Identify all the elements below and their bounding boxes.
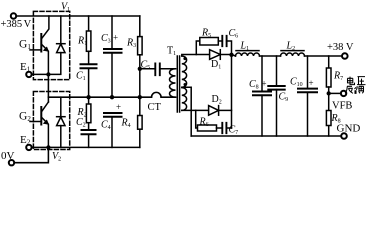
inductor L1 core bar [236,50,259,52]
capacitor C2 [82,130,96,134]
capacitor C7 [222,123,226,133]
svg-text:R6: R6 [199,117,209,129]
T1 secondary mid polarity dot [184,83,187,86]
inductor L1 [236,53,260,56]
inductor CT current transformer [152,92,162,97]
transformer T1 primary winding [170,69,176,97]
capacitor C4 electrolytic [104,113,122,117]
junction R2 top at mid rail [86,95,90,99]
svg-text:R3: R3 [126,38,136,50]
diode VD2 antiparallel with V2 [57,97,65,147]
wire R3R4 tap to C5 [140,68,156,70]
wire VFB tap [329,92,341,94]
wire top rail +385V [16,15,140,17]
svg-text:+: + [113,33,118,43]
svg-text:V2: V2 [52,151,61,163]
svg-text:C5: C5 [141,60,151,72]
svg-text:D2: D2 [212,94,222,106]
wire 0V lead [14,147,48,162]
svg-text:C1: C1 [76,71,86,83]
node +385V terminal [11,13,16,18]
node E1 terminal [26,72,31,77]
wire secondary bottom to D2 [182,109,209,111]
capacitor C9 [276,56,278,86]
diode VD1 antiparallel with V1 [48,16,65,74]
label 电压 (voltage) hand strokes [348,77,366,85]
junction C3 C4 at mid rail [110,95,114,99]
svg-text:T1: T1 [167,46,176,58]
svg-text:C3: C3 [101,33,111,45]
svg-text:C2: C2 [76,117,86,129]
wire node to L1 [232,55,236,57]
svg-text:0V: 0V [1,150,15,162]
svg-text:E1: E1 [20,61,31,74]
capacitor C3 electrolytic [111,16,113,49]
junction VFB tap [327,91,331,95]
svg-text:C10: C10 [290,77,303,89]
wire D2 cathode to node column [219,109,232,111]
wire R6 snubber tap [196,110,198,128]
node GND terminal [341,133,347,139]
diode D2 [209,106,219,116]
svg-text:+: + [309,78,314,88]
wire R5 snubber tap [196,41,200,55]
label 反馈 (feedback) hand strokes [345,86,364,93]
wire CT to T1 primary bottom [161,96,175,98]
wire L1 to L2 [260,55,281,57]
junction V1 emitter node [46,72,50,76]
wire secondary center tap [182,87,191,136]
wire secondary top to D1 [182,55,210,57]
resistor R8 [326,111,331,126]
svg-text:R5: R5 [201,28,211,40]
wire E1 to emitter junction [32,73,49,75]
resistor R6 [198,125,217,131]
wire primary bottom rail [48,146,139,148]
svg-text:+385V: +385V [1,19,32,30]
wire L2 to +38V terminal [305,55,342,57]
svg-text:VFB: VFB [332,101,352,112]
wire mid rail to transformer [48,96,151,98]
resistor R2 [88,97,90,104]
resistor R4 [139,97,141,115]
capacitor C1 [81,64,97,68]
IGBT module V2 dashed box [33,92,69,150]
wire E2 to emitter junction [32,146,49,148]
junction V2 emitter node [46,145,50,149]
wire C5 to T1 primary [160,68,176,70]
T1 secondary top polarity dot [183,57,186,60]
svg-text:C7: C7 [229,125,239,137]
svg-text:G1: G1 [19,39,31,52]
svg-text:+38 V: +38 V [327,42,354,53]
inductor L2 core bar [281,50,304,52]
node 0V terminal [9,160,14,165]
wire rectifier output column [231,55,233,129]
transistor V1 IGBT [30,16,49,74]
svg-text:CT: CT [148,102,162,113]
svg-text:R4: R4 [121,118,131,130]
svg-text:C4: C4 [101,120,111,132]
node VFB terminal [341,91,346,96]
wire D1 cathode to node [220,54,231,56]
transformer T1 secondary bottom winding [182,88,187,111]
svg-text:C8: C8 [249,79,259,91]
resistor R7 [328,56,330,68]
svg-text:GND: GND [337,123,361,135]
capacitor C10 electrolytic [307,56,309,89]
node E2 terminal [26,145,31,150]
diode D1 [210,50,221,60]
svg-text:C9: C9 [279,92,289,104]
IGBT module V1 dashed box [33,11,69,79]
svg-text:D1: D1 [211,59,221,71]
transistor V2 IGBT [30,102,49,147]
svg-text:+: + [262,79,267,89]
svg-text:G2: G2 [19,111,31,124]
node +38V terminal [342,53,348,59]
wire top rail drop to R3 [139,16,141,37]
wire bottom output rail [191,135,341,137]
svg-text:L2: L2 [286,41,296,53]
resistor R3 [138,37,143,55]
svg-text:R7: R7 [333,71,343,83]
wire midpoint V1 emitter to V2 collector [47,74,49,102]
svg-text:V1: V1 [61,2,70,14]
junction rectifier output node [229,53,233,57]
transformer T1 secondary top winding [182,56,187,87]
junction R3 R4 C5 tap [138,67,142,71]
svg-text:C6: C6 [229,28,239,40]
svg-text:+: + [116,102,121,112]
resistor R1 [88,16,90,31]
svg-text:R1: R1 [77,36,87,48]
junction R3R4 column at mid rail [138,95,142,99]
transformer T1 core [177,56,179,112]
capacitor C5 [155,64,160,76]
capacitor C8 electrolytic [261,56,263,92]
svg-text:L1: L1 [240,41,250,53]
inductor L2 [281,53,305,56]
capacitor C6 [222,36,226,46]
svg-text:E2: E2 [20,134,31,147]
resistor R5 [200,38,219,46]
